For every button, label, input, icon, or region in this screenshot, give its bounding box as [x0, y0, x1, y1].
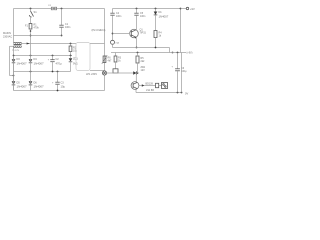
svg-text:1N4007: 1N4007	[17, 85, 28, 89]
node d-col1 mid	[13, 75, 15, 77]
connector LS1 plug	[156, 83, 159, 87]
relay contact box	[113, 69, 118, 73]
diode D3	[12, 59, 16, 62]
transistor Q2	[135, 73, 137, 82]
wire d-col1	[13, 56, 15, 91]
wire Q2 emitter right	[139, 85, 156, 87]
node bottom x181	[181, 92, 183, 94]
wire switch to R1	[30, 17, 32, 24]
wire box to edge	[90, 43, 105, 45]
wire Q1 emitter down	[136, 38, 138, 48]
node emitter rail	[136, 47, 138, 49]
wire corner to rail3	[169, 48, 171, 53]
node rail x137	[137, 52, 139, 54]
wire Q2 down	[135, 89, 137, 92]
resistor R5	[136, 56, 139, 63]
node fuse right	[61, 8, 63, 10]
svg-text:10µ: 10µ	[61, 84, 66, 88]
svg-text:(+9V): (+9V)	[187, 52, 193, 55]
wire box bottom to lamp	[90, 70, 105, 72]
node R1 rail	[30, 35, 32, 37]
capacitor C1	[61, 9, 63, 26]
diode D1	[155, 9, 157, 12]
node tap x70	[70, 43, 72, 45]
capacitor C3	[57, 72, 59, 83]
resistor R1	[29, 24, 32, 30]
node rail2 x52	[52, 55, 54, 57]
svg-text:1N4007: 1N4007	[34, 85, 45, 89]
lamp LP1	[102, 71, 106, 75]
node rail3 x57	[57, 71, 59, 73]
resistor R2	[70, 44, 72, 47]
node D1 top	[155, 8, 157, 10]
terminal +9V top	[181, 8, 187, 10]
wire right top column	[180, 9, 182, 53]
svg-text:TIP31: TIP31	[140, 32, 147, 35]
svg-text:100n: 100n	[140, 15, 146, 18]
svg-text:+9V: +9V	[190, 7, 195, 11]
wire top rail primary	[14, 8, 105, 10]
connector LS1 jack	[162, 83, 168, 89]
node rail x177	[177, 52, 179, 54]
svg-text:LS1 8R: LS1 8R	[146, 89, 154, 92]
svg-text:LP1 230V: LP1 230V	[86, 73, 97, 76]
node rail3 x52	[52, 71, 54, 73]
node tap x29 arrow	[27, 43, 30, 45]
wire rail secondary mid	[111, 52, 182, 54]
wire right edge primary lower	[104, 75, 106, 91]
transformer core	[14, 43, 22, 45]
wire bottom rail primary	[14, 90, 105, 92]
diode D5	[12, 81, 16, 84]
svg-text:470µ: 470µ	[56, 61, 62, 65]
transformer T1 secondary	[14, 46, 22, 47]
node rail2 x31	[30, 55, 32, 57]
wire d-col2	[30, 44, 32, 91]
capacitor C5	[136, 9, 138, 14]
svg-text:mA: mA	[116, 42, 120, 45]
svg-text:T1 12V: T1 12V	[12, 50, 20, 52]
svg-text:1N4007: 1N4007	[34, 61, 45, 65]
wire rail mid3	[14, 71, 71, 73]
wire right output column	[181, 53, 183, 93]
capacitor C4	[112, 9, 114, 14]
svg-text:12V: 12V	[141, 69, 146, 72]
svg-text:100n: 100n	[65, 26, 71, 29]
svg-text:1N4007: 1N4007	[17, 61, 28, 65]
wire zener row	[107, 72, 134, 74]
wire left edge primary	[13, 9, 15, 43]
transformer T1 primary	[14, 43, 22, 44]
capacitor C2	[52, 56, 54, 60]
wire rail mid1	[14, 35, 62, 37]
resistor R3	[115, 53, 117, 57]
svg-text:S1: S1	[34, 10, 38, 14]
svg-text:1N4007: 1N4007	[159, 15, 169, 19]
svg-text:0V: 0V	[185, 92, 188, 96]
wire rail mid2	[14, 55, 73, 57]
wire R1 down	[30, 29, 32, 44]
svg-text:4k7: 4k7	[108, 60, 113, 63]
transistor Q1	[130, 29, 139, 38]
svg-text:9V1: 9V1	[73, 61, 78, 65]
wire top rail secondary	[113, 8, 181, 10]
zener ZD1	[70, 56, 72, 59]
node switch top	[30, 8, 32, 10]
terminal out mid	[182, 52, 186, 54]
wire secondary tap	[13, 42, 15, 44]
svg-text:(P2-C3&C4): (P2-C3&C4)	[92, 28, 106, 32]
module box	[76, 43, 90, 71]
diode D4	[29, 59, 33, 62]
svg-text:230VAC: 230VAC	[3, 36, 12, 39]
node top right	[180, 8, 182, 10]
node rail3 x31	[30, 71, 32, 73]
svg-text:470k: 470k	[34, 27, 40, 30]
wire right edge primary	[104, 9, 106, 72]
node bottom x177	[177, 92, 179, 94]
wire base Q1	[113, 33, 130, 35]
node C1 rail	[61, 35, 63, 37]
node base tap	[112, 33, 114, 35]
wire bottom rail secondary	[136, 92, 182, 94]
wire transformer bottom	[9, 46, 11, 75]
node rail2 x70	[70, 55, 72, 57]
fuse F1	[51, 7, 53, 10]
switch S1	[30, 9, 32, 12]
wire emitter rail	[113, 47, 170, 49]
node rail2 x14	[13, 55, 15, 57]
capacitor C6 column	[177, 53, 179, 69]
zener ZD2	[133, 71, 136, 75]
meter M1	[111, 40, 115, 44]
node R1 bottom	[30, 30, 32, 32]
svg-text:BD139: BD139	[146, 82, 154, 85]
node corner rail	[172, 52, 174, 54]
diode D6	[29, 81, 33, 84]
preset R6 on edge	[103, 56, 106, 63]
resistor R4	[154, 31, 157, 38]
svg-text:2k2: 2k2	[141, 60, 146, 63]
node C3 bottom	[57, 90, 59, 92]
node Q1 collector top	[136, 8, 138, 10]
wire left edge lower	[13, 46, 15, 90]
svg-text:100n: 100n	[116, 15, 122, 18]
svg-text:100µ: 100µ	[181, 70, 187, 73]
node zener junction	[137, 72, 139, 74]
node R4 rail	[155, 47, 157, 49]
